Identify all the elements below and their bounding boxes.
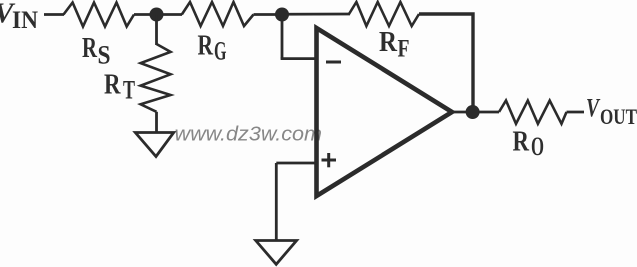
svg-text:G: G	[214, 37, 227, 66]
svg-text:R: R	[104, 69, 121, 101]
label RG	[198, 30, 227, 66]
wire node B to RF	[282, 13, 350, 16]
wire to inverting input	[281, 57, 317, 60]
svg-text:www.dz3w.com: www.dz3w.com	[175, 124, 323, 146]
plus sign (non-inverting input)	[322, 153, 337, 167]
svg-text:R: R	[198, 30, 214, 62]
label RS	[82, 32, 111, 70]
wire RT to ground 1	[155, 112, 158, 132]
svg-text:R: R	[513, 126, 530, 158]
op-amp U1	[317, 28, 453, 196]
wire down to ground 2	[275, 163, 278, 240]
node A junction dot	[150, 8, 164, 22]
label RF	[379, 26, 410, 63]
resistor RT	[141, 44, 171, 112]
label VOUT	[586, 94, 637, 130]
wire RO to VOUT	[567, 111, 585, 114]
label RT	[104, 69, 135, 105]
wire non-inverting input to left	[276, 162, 317, 165]
svg-text:S: S	[98, 41, 111, 70]
output node junction dot	[466, 105, 480, 119]
svg-text:OUT: OUT	[600, 104, 637, 129]
resistor RS	[64, 3, 135, 27]
wire node B down	[281, 15, 284, 59]
label VIN	[0, 0, 38, 34]
wire node A down to RT	[155, 15, 158, 46]
wire RS to node A	[134, 13, 182, 16]
resistor RF	[349, 2, 419, 26]
svg-text:R: R	[82, 32, 98, 64]
svg-text:T: T	[123, 76, 135, 105]
wire VIN to RS	[44, 13, 64, 16]
ground 2	[256, 241, 297, 265]
label RO	[513, 126, 545, 162]
svg-text:R: R	[379, 26, 398, 58]
node B junction dot	[275, 8, 289, 22]
wire op-amp output to RO	[450, 111, 499, 114]
resistor RO	[499, 101, 567, 124]
ground 1	[135, 133, 173, 157]
minus sign (inverting input)	[326, 61, 341, 64]
wire RG to node B	[254, 13, 283, 16]
svg-text:V: V	[586, 94, 601, 123]
wire RF to output corner	[419, 14, 473, 108]
svg-text:O: O	[531, 132, 544, 161]
resistor RG	[182, 2, 254, 26]
svg-text:F: F	[398, 36, 410, 63]
svg-text:IN: IN	[12, 7, 38, 34]
